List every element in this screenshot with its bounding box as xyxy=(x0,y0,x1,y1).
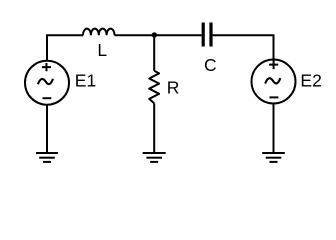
wire capacitor to E2 top xyxy=(213,35,274,59)
svg-text:C: C xyxy=(204,55,217,75)
wire E1 to ground xyxy=(46,105,48,153)
resistor R xyxy=(149,71,159,104)
svg-text:E2: E2 xyxy=(300,71,321,91)
ground (E2) xyxy=(262,153,285,162)
svg-text:R: R xyxy=(167,78,180,98)
AC source E2 xyxy=(252,60,296,104)
wire resistor to ground xyxy=(153,103,155,153)
wire node to resistor xyxy=(153,35,155,71)
AC source E1 xyxy=(25,61,69,105)
ground (R) xyxy=(143,153,166,162)
node junction dot xyxy=(152,32,157,37)
wire inductor to capacitor xyxy=(115,34,202,36)
ground (E1) xyxy=(36,153,58,162)
wire E2 to ground xyxy=(273,104,275,154)
capacitor C xyxy=(203,23,211,47)
svg-text:L: L xyxy=(97,40,107,60)
svg-text:E1: E1 xyxy=(75,71,96,91)
inductor L xyxy=(83,29,115,36)
wire E1 top to inductor xyxy=(47,35,83,61)
